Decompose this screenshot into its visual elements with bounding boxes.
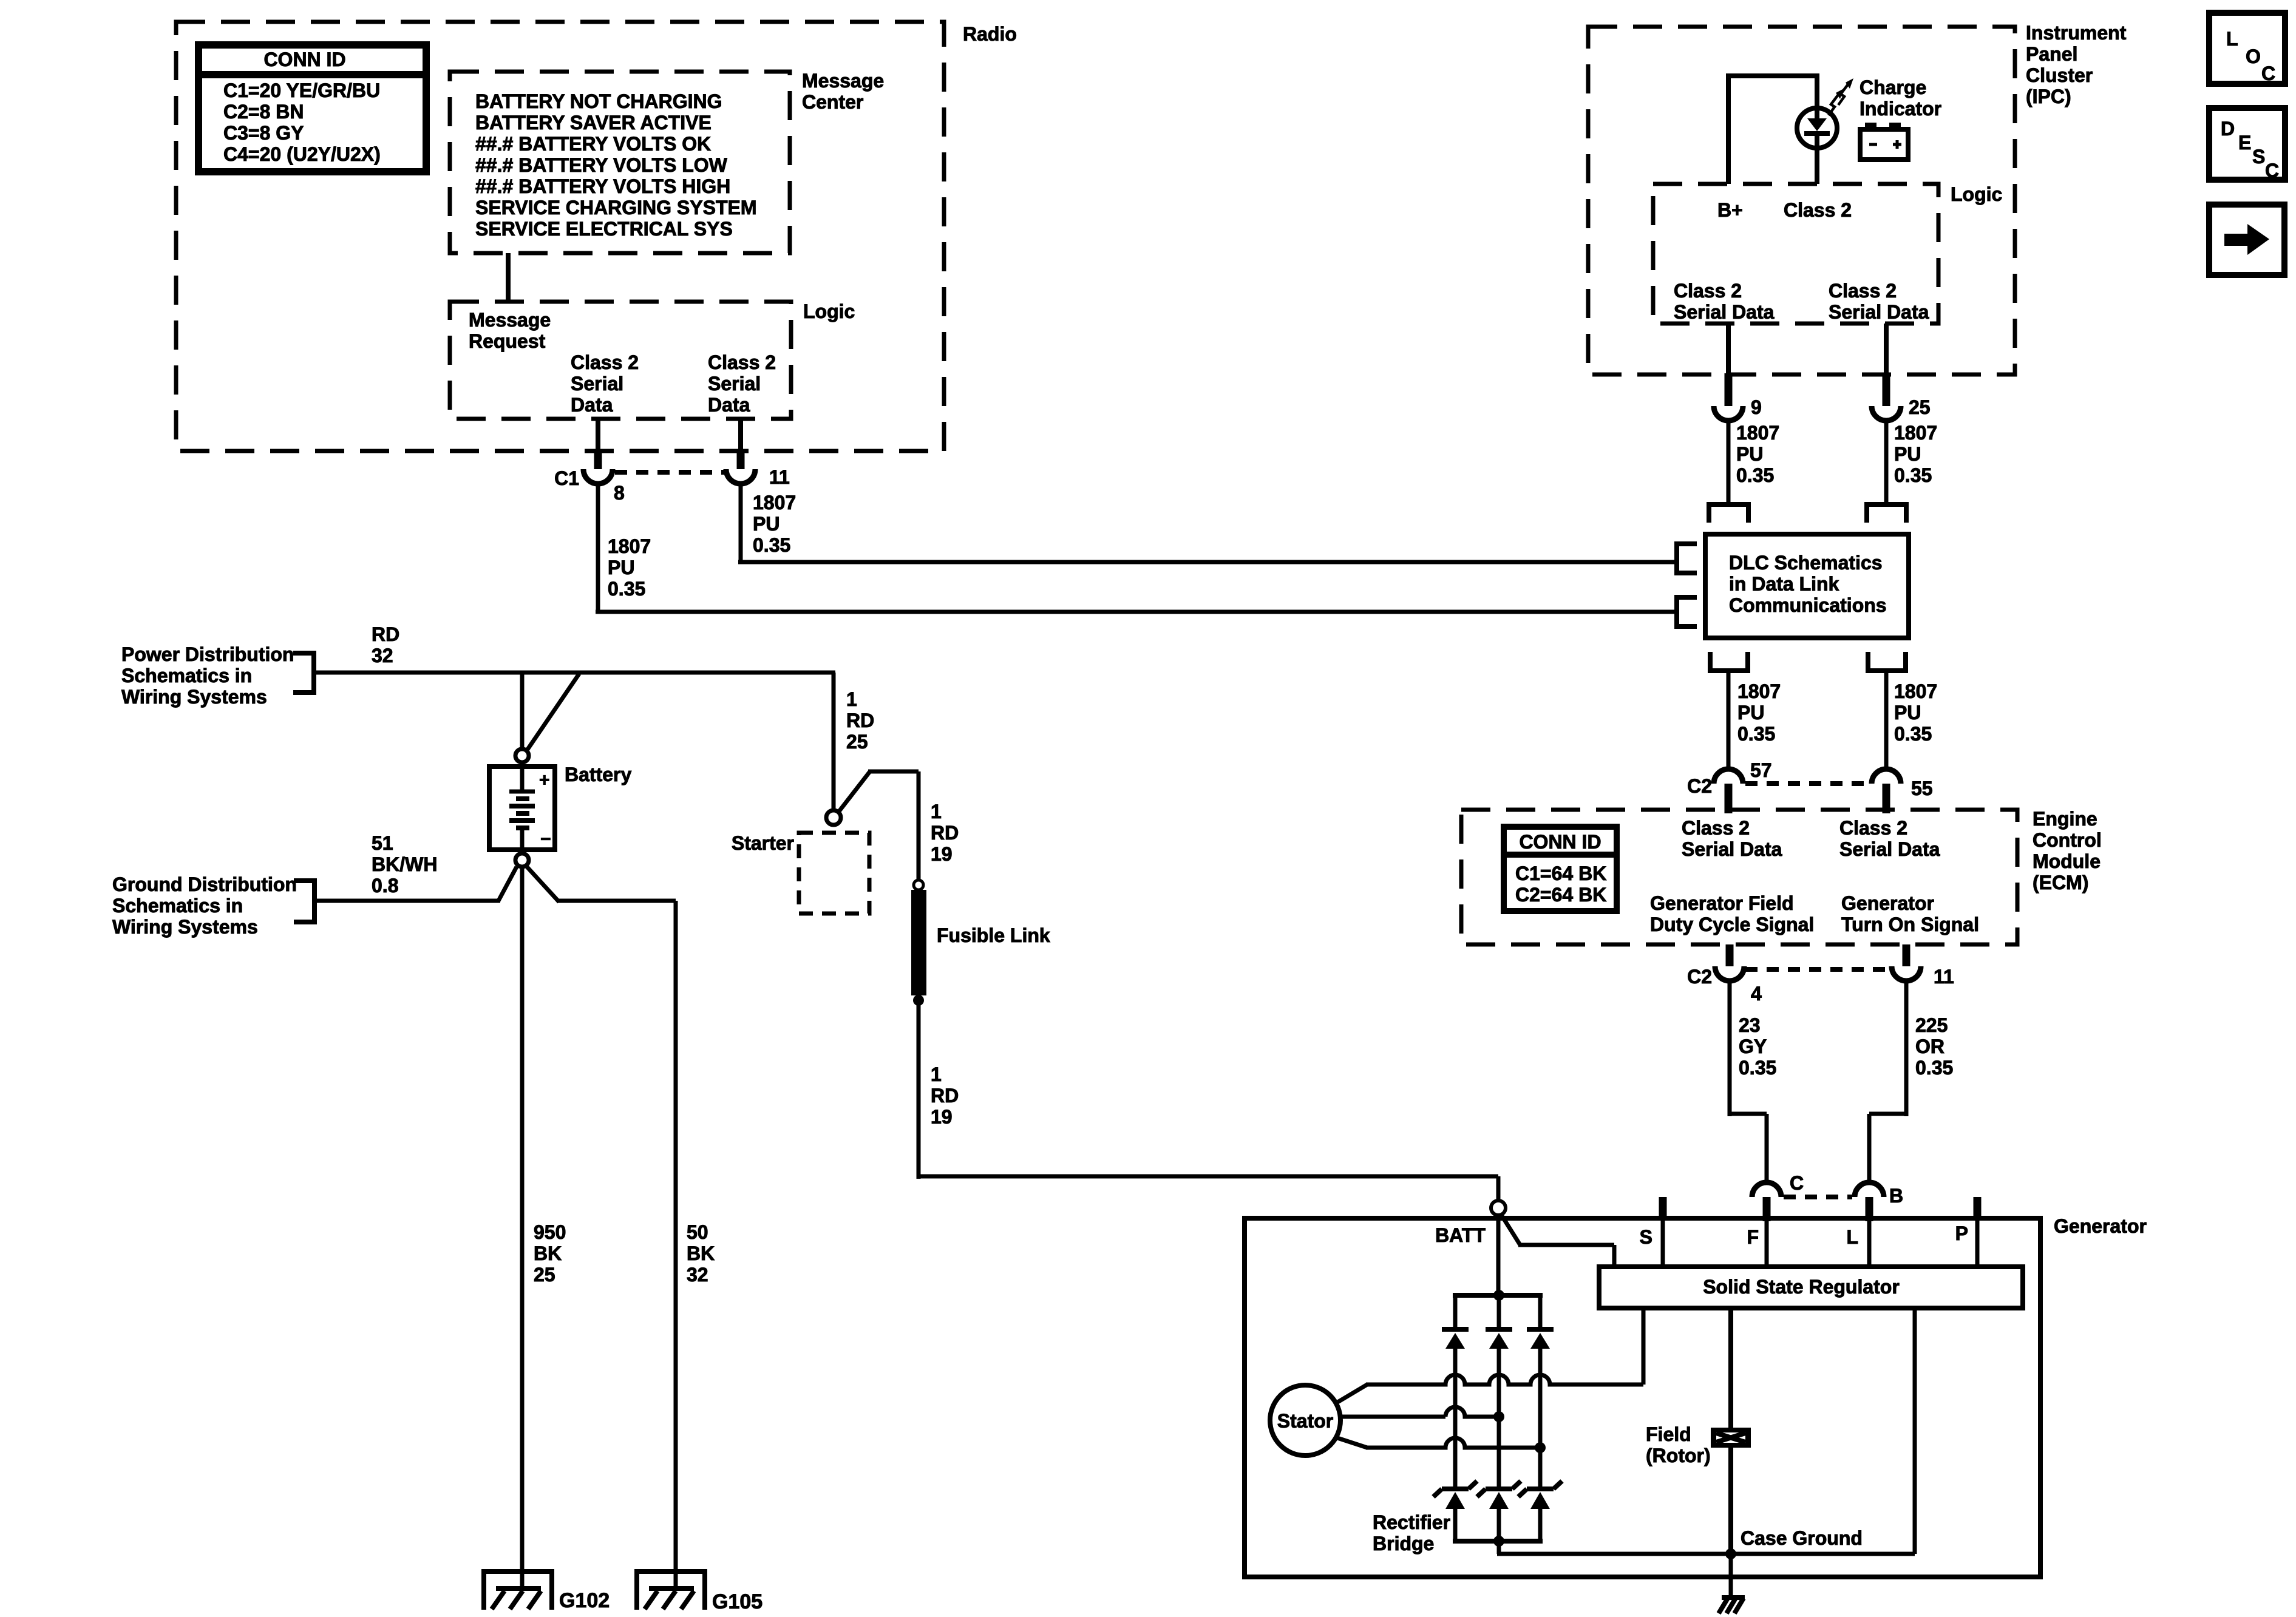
svg-text:OR: OR [1915,1036,1944,1057]
wire ground distribution [314,899,500,903]
B+ wire [1726,74,1731,184]
svg-text:G105: G105 [712,1590,763,1613]
bridge column 1 middle [1453,1349,1458,1486]
svg-text:E: E [2238,132,2251,154]
radio CONN ID table [199,45,426,172]
svg-text:25: 25 [1909,396,1931,418]
svg-text:RD: RD [931,1085,959,1107]
svg-text:Engine: Engine [2033,808,2097,830]
terminal P pin [1974,1197,1982,1221]
diode top col2 [1486,1327,1512,1332]
IPC logic dashed box [1653,184,1938,324]
svg-text:Center: Center [802,91,863,113]
DLC schematics box [1705,534,1909,638]
svg-text:0.35: 0.35 [1737,723,1775,745]
diode top col3 [1527,1327,1554,1332]
wire regulator to field [1728,1308,1733,1429]
svg-text:32: 32 [687,1264,708,1286]
wire starter to fusible link [838,771,870,812]
svg-text:25: 25 [534,1264,555,1286]
charge indicator LED [1797,108,1837,148]
svg-text:G102: G102 [559,1589,610,1612]
svg-text:C2=8 BN: C2=8 BN [223,101,304,123]
wire 1807 PU from pin 11 [739,483,743,562]
connector pin 11 ECM [1903,944,1911,966]
DLC top bracket left [1709,504,1748,523]
svg-text:BATTERY NOT CHARGING: BATTERY NOT CHARGING [475,90,722,112]
svg-text:BK/WH: BK/WH [372,853,437,875]
svg-text:C2=64 BK: C2=64 BK [1515,884,1606,906]
ground G102 symbol [484,1571,552,1610]
wire DLC to C2 57 [1727,671,1731,771]
svg-text:Class 2: Class 2 [1784,199,1852,221]
svg-text:Message: Message [469,309,551,331]
svg-text:32: 32 [372,645,393,666]
svg-text:Serial Data: Serial Data [1839,838,1940,860]
svg-text:1: 1 [931,1063,942,1085]
svg-text:0.35: 0.35 [1894,723,1932,745]
bridge top bus [1453,1293,1543,1298]
inline connector dashed line C1 [615,470,725,475]
svg-text:Battery: Battery [565,764,631,785]
wire to G105 [557,899,676,903]
svg-text:1807: 1807 [1894,680,1937,702]
battery symbol box [489,767,555,850]
DLC bottom bracket right [1868,652,1906,671]
svg-text:Message: Message [802,70,884,92]
svg-text:8: 8 [614,482,625,504]
wire L to regulator [1867,1218,1872,1267]
generator box [1245,1218,2040,1577]
LOC box [2209,13,2285,84]
connector B [1855,1182,1884,1197]
svg-text:RD: RD [846,710,874,731]
svg-text:PU: PU [1894,443,1921,465]
svg-text:CONN ID: CONN ID [263,49,345,70]
svg-text:C: C [2265,160,2279,181]
svg-text:Serial Data: Serial Data [1674,301,1775,323]
svg-text:Serial Data: Serial Data [1682,838,1782,860]
zener col1 [1442,1486,1469,1491]
svg-text:1: 1 [846,688,857,710]
DLC left bracket lower [1677,597,1697,626]
wire DLC to C2 55 [1884,671,1889,771]
svg-text:Module: Module [2033,850,2101,872]
svg-text:S: S [1640,1226,1652,1248]
svg-text:0.8: 0.8 [372,875,398,897]
connector C [1752,1182,1781,1197]
svg-text:Solid State Regulator: Solid State Regulator [1703,1276,1900,1298]
zener col2 [1486,1486,1512,1491]
svg-text:P: P [1955,1222,1968,1244]
ground G105 symbol [637,1571,705,1610]
solid state regulator box [1599,1267,2023,1308]
svg-text:+: + [539,770,550,790]
svg-text:PU: PU [1736,443,1763,465]
svg-text:51: 51 [372,832,393,854]
svg-text:C1: C1 [554,467,579,489]
connector C2 pin 57 [1714,769,1743,784]
svg-text:Ground Distribution: Ground Distribution [112,873,297,895]
ECM CONN ID table [1504,827,1617,911]
wire 23 GY 0.35 [1728,980,1732,1116]
svg-text:50: 50 [687,1221,708,1243]
svg-text:BATTERY SAVER ACTIVE: BATTERY SAVER ACTIVE [475,112,712,134]
zener col3 [1527,1486,1554,1491]
fusible link bar [911,890,926,995]
svg-text:PU: PU [753,513,779,535]
svg-text:Rectifier: Rectifier [1373,1511,1450,1533]
wire regulator right to case ground [1913,1308,1917,1554]
svg-text:−: − [540,829,551,849]
svg-text:C: C [1790,1172,1804,1194]
svg-text:25: 25 [846,731,868,753]
svg-text:C4=20 (U2Y/U2X): C4=20 (U2Y/U2X) [223,143,381,165]
svg-text:Logic: Logic [1951,183,2002,205]
svg-text:19: 19 [931,1106,953,1128]
message center dashed box [450,72,790,253]
svg-text:PU: PU [608,557,634,578]
svg-text:Case Ground: Case Ground [1741,1527,1863,1549]
svg-text:0.35: 0.35 [1736,464,1774,486]
svg-text:Indicator: Indicator [1860,98,1941,120]
svg-text:Schematics in: Schematics in [112,895,243,917]
svg-text:Wiring Systems: Wiring Systems [112,916,258,938]
svg-text:Class 2: Class 2 [1682,817,1750,839]
wire 1807 PU from pin 8 [596,483,600,612]
starter dashed box [799,833,869,914]
wire to G102 [520,867,525,1591]
svg-text:0.35: 0.35 [753,534,790,556]
case ground stem [1729,1554,1733,1598]
svg-text:Cluster: Cluster [2026,64,2093,86]
svg-text:55: 55 [1911,778,1933,799]
stator circle [1270,1385,1340,1456]
svg-text:Radio: Radio [963,23,1017,45]
svg-text:950: 950 [534,1221,566,1243]
svg-text:Schematics in: Schematics in [121,665,252,686]
svg-text:Charge: Charge [1860,76,1926,98]
engine control module dashed box [1461,810,2017,944]
svg-text:RD: RD [372,623,399,645]
bridge column 2 upper [1497,1298,1501,1327]
wire power to starter [832,673,836,810]
svg-text:in Data Link: in Data Link [1729,573,1839,595]
svg-text:Logic: Logic [803,300,855,322]
svg-text:SERVICE CHARGING SYSTEM: SERVICE CHARGING SYSTEM [475,197,756,219]
svg-text:BATT: BATT [1435,1224,1486,1246]
wire battery to starter diagonal [526,674,579,752]
svg-text:0.35: 0.35 [1915,1057,1953,1079]
svg-text:L: L [2226,28,2238,50]
connector C1 pin 8 [594,451,602,469]
wire pin 9 to DLC [1727,419,1731,504]
svg-text:Generator: Generator [2054,1215,2147,1237]
wire F to regulator [1765,1218,1769,1267]
svg-text:L: L [1846,1226,1858,1248]
inline connector dashed line C2 lower [1745,967,1889,972]
svg-text:Generator: Generator [1841,892,1934,914]
svg-text:C: C [2261,63,2275,84]
svg-text:BK: BK [534,1242,562,1264]
inline connector dashed line C B [1784,1195,1852,1199]
starter terminal ring [826,810,841,825]
svg-text:0.35: 0.35 [608,578,645,600]
svg-text:1807: 1807 [1736,422,1779,444]
wire ground dist diagonal [498,867,517,901]
svg-text:GY: GY [1739,1036,1767,1057]
stator wire middle [1340,1415,1445,1419]
svg-text:Instrument: Instrument [2026,22,2127,44]
svg-text:Wiring Systems: Wiring Systems [121,686,267,708]
svg-text:##.# BATTERY VOLTS OK: ##.# BATTERY VOLTS OK [475,133,711,155]
svg-text:1: 1 [931,801,942,822]
wire RD 32 [314,671,835,675]
svg-text:19: 19 [931,843,953,865]
svg-text:Communications: Communications [1729,594,1887,616]
svg-text:57: 57 [1750,759,1772,781]
wire IPC pin 25 [1884,324,1889,375]
BATT terminal ring [1491,1201,1506,1215]
svg-text:Starter: Starter [732,832,794,854]
wire battery minus diagonal right [526,866,559,902]
svg-text:##.# BATTERY VOLTS HIGH: ##.# BATTERY VOLTS HIGH [475,175,730,197]
bridge bottom bus [1453,1539,1543,1544]
svg-text:F: F [1747,1226,1759,1248]
wire fusible link to BATT [917,1003,921,1179]
wire pin 25 to DLC [1884,419,1889,504]
svg-text:Data: Data [708,394,750,416]
svg-text:C2: C2 [1687,966,1712,988]
bridge column 3 upper [1538,1295,1543,1327]
stator wire bottom [1336,1437,1367,1448]
svg-text:DLC Schematics: DLC Schematics [1729,552,1883,574]
svg-text:(IPC): (IPC) [2026,86,2071,107]
IPC battery icon [1860,129,1908,160]
svg-text:Serial: Serial [571,373,623,395]
svg-text:1807: 1807 [1737,680,1781,702]
wire to battery positive [520,673,525,750]
svg-text:Data: Data [571,394,613,416]
svg-text:Fusible Link: Fusible Link [937,924,1050,946]
svg-text:23: 23 [1739,1014,1761,1036]
svg-text:PU: PU [1737,702,1764,724]
svg-text:9: 9 [1751,396,1762,418]
svg-text:RD: RD [931,822,959,844]
svg-text:225: 225 [1915,1014,1948,1036]
svg-text:1807: 1807 [753,492,796,514]
DLC left bracket upper [1677,544,1697,573]
wire BATT into generator [1496,1215,1501,1298]
svg-text:SERVICE ELECTRICAL SYS: SERVICE ELECTRICAL SYS [475,218,733,240]
svg-text:11: 11 [769,466,790,488]
arrow box [2209,205,2284,275]
svg-text:Serial: Serial [708,373,761,395]
svg-text:B: B [1889,1185,1903,1207]
instrument panel cluster dashed box [1588,27,2015,375]
wire field to case ground [1728,1446,1733,1554]
charge indicator flash arrows [1829,95,1838,115]
connector C1 pin 11 [737,451,745,469]
bridge column 1 upper [1453,1295,1458,1327]
ground distribution bracket [294,881,314,922]
radio module dashed box [176,22,944,451]
svg-text:Class 2: Class 2 [1829,280,1897,302]
svg-text:(Rotor): (Rotor) [1646,1445,1711,1466]
svg-text:0.35: 0.35 [1739,1057,1776,1079]
svg-text:C1=20 YE/GR/BU: C1=20 YE/GR/BU [223,80,380,101]
case ground symbol [1722,1595,1745,1600]
fusible link bottom dot [913,995,924,1006]
svg-text:BK: BK [687,1242,715,1264]
battery plates [520,767,525,792]
stator wire top [1336,1385,1367,1403]
diode top col1 [1442,1327,1469,1332]
wire IPC pin 9 [1726,324,1731,375]
svg-text:S: S [2252,146,2265,168]
battery positive terminal ring [515,749,529,762]
svg-text:##.# BATTERY VOLTS LOW: ##.# BATTERY VOLTS LOW [475,154,728,176]
battery negative terminal ring [515,853,529,867]
svg-text:1807: 1807 [608,535,651,557]
svg-text:D: D [2221,118,2235,140]
svg-text:O: O [2246,46,2261,67]
svg-text:Turn On Signal: Turn On Signal [1841,914,1979,935]
wire P to regulator [1975,1218,1980,1267]
bridge column 3 middle [1538,1349,1543,1486]
svg-text:Serial Data: Serial Data [1829,301,1929,323]
inline connector dashed line C2 upper [1745,781,1869,786]
wire S to regulator [1661,1218,1665,1267]
svg-text:Request: Request [469,330,546,352]
connector C2 pin 55 [1872,769,1901,784]
svg-text:Bridge: Bridge [1373,1533,1434,1554]
bridge column 2 middle [1497,1349,1501,1486]
svg-text:4: 4 [1751,983,1762,1005]
svg-text:11: 11 [1934,966,1954,988]
svg-text:Class 2: Class 2 [1674,280,1742,302]
fusible link top ring [914,880,923,890]
wire logic to pin 8 [596,419,600,452]
svg-text:Field: Field [1646,1423,1691,1445]
svg-text:Power Distribution: Power Distribution [121,643,294,665]
svg-text:B+: B+ [1717,199,1743,221]
DLC bottom bracket left [1710,652,1748,671]
svg-text:1807: 1807 [1894,422,1937,444]
svg-text:C3=8 GY: C3=8 GY [223,122,304,144]
field rotor symbol [1711,1428,1751,1448]
svg-text:(ECM): (ECM) [2033,872,2088,893]
power distribution bracket [293,653,314,693]
wire bridge to case ground [1497,1541,1501,1554]
svg-text:Class 2: Class 2 [1839,817,1907,839]
svg-text:C2: C2 [1687,775,1712,797]
svg-text:Class 2: Class 2 [571,351,639,373]
svg-text:Panel: Panel [2026,43,2077,65]
wire logic to pin 11 [738,419,743,452]
svg-text:Control: Control [2033,829,2102,851]
DESC box [2209,108,2285,180]
wire BATT to regulator [1501,1214,1520,1245]
svg-text:0.35: 0.35 [1894,464,1932,486]
terminal S pin [1659,1197,1667,1221]
wire message center to logic [506,253,511,302]
connector C2 pin 4 [1726,944,1734,966]
svg-text:PU: PU [1894,702,1921,724]
svg-text:Class 2: Class 2 [708,351,776,373]
svg-text:Stator: Stator [1277,1410,1333,1432]
radio logic dashed box [450,302,791,419]
svg-text:CONN ID: CONN ID [1519,831,1601,853]
svg-text:Duty Cycle Signal: Duty Cycle Signal [1650,914,1814,935]
wire 225 OR 0.35 [1904,980,1909,1116]
svg-text:C1=64 BK: C1=64 BK [1515,863,1606,884]
DLC top bracket right [1867,504,1906,523]
svg-text:Generator Field: Generator Field [1650,892,1794,914]
